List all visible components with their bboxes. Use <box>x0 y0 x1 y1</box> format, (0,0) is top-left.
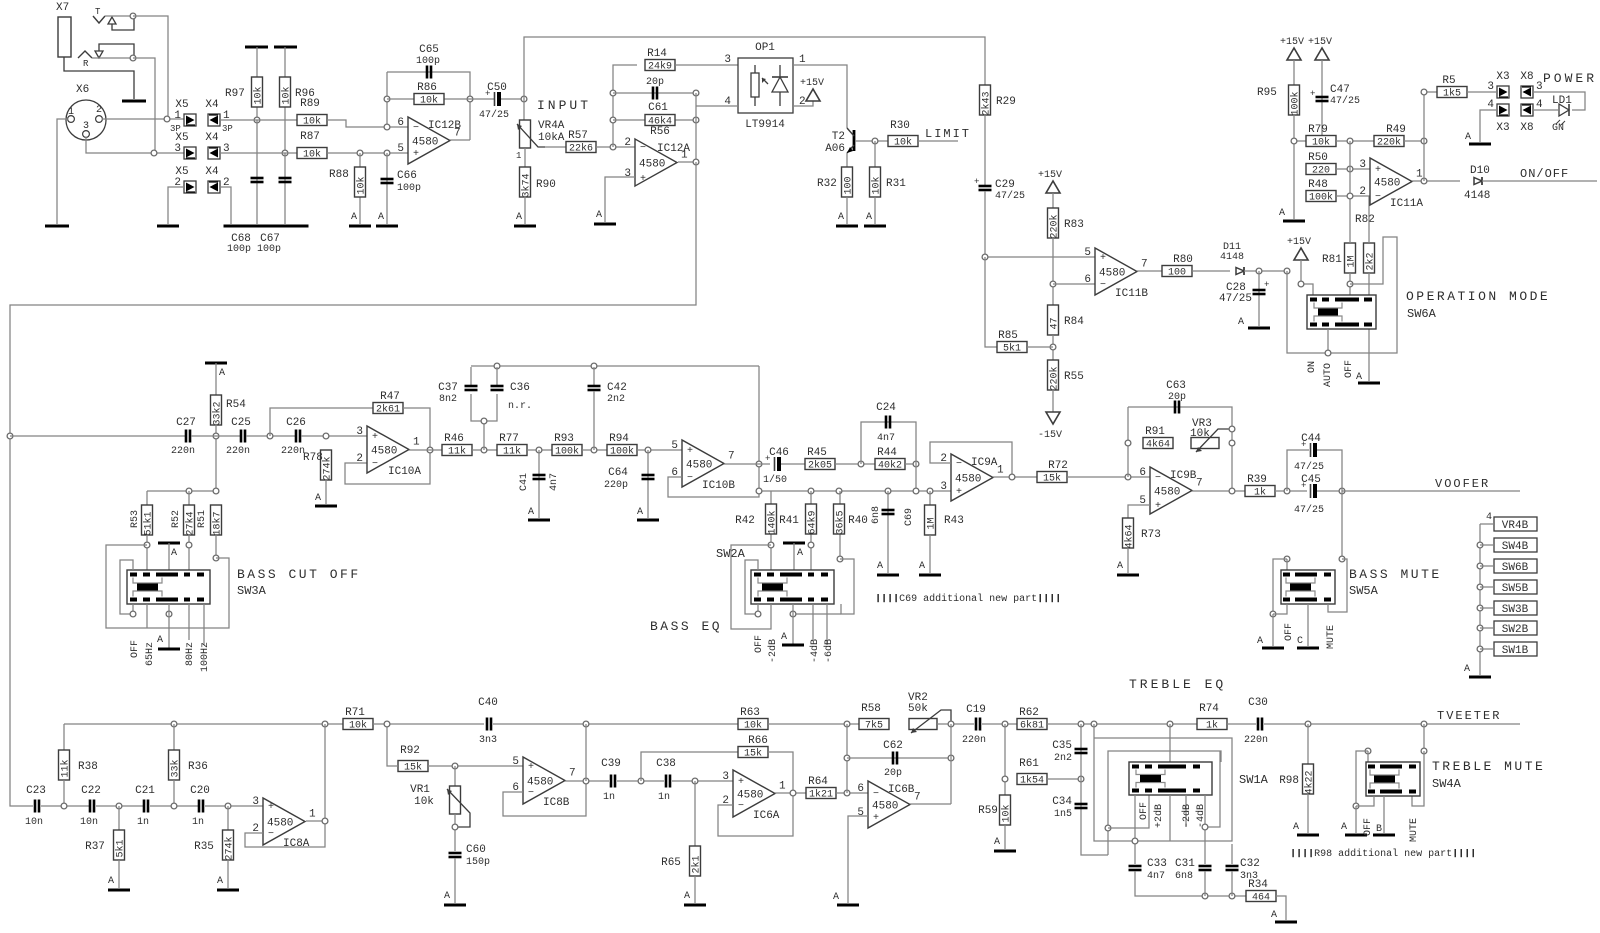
svg-text:A: A <box>378 212 384 223</box>
svg-text:A: A <box>157 635 163 646</box>
potentiometer VR3 label <box>1192 418 1212 430</box>
svg-text:R43: R43 <box>944 515 964 527</box>
ground R95 column <box>1279 208 1305 221</box>
switch SW3A 65Hz <box>145 642 156 666</box>
svg-text:X4: X4 <box>205 166 219 178</box>
capacitor C67 label <box>260 233 280 245</box>
wire top bus <box>524 37 985 99</box>
wire IC6A fb loop <box>718 793 793 836</box>
resistor R64 <box>806 776 836 801</box>
wire C22 to C21 <box>96 805 144 807</box>
switch SW1A +2dB <box>1153 804 1165 828</box>
ground R32 <box>836 212 858 226</box>
svg-text:100k: 100k <box>1309 192 1333 204</box>
capacitor C44 <box>1301 440 1317 457</box>
svg-text:VR4A: VR4A <box>538 120 565 132</box>
BASS CUT OFF label <box>237 567 361 582</box>
diode D11 part <box>1220 252 1244 263</box>
wire R31 column <box>874 141 876 167</box>
wire C33 bottom row <box>1135 871 1246 896</box>
wire C69 column <box>887 491 889 573</box>
wire SW3A mid ground stub <box>168 604 170 649</box>
svg-text:4148: 4148 <box>1464 190 1490 202</box>
svg-text:R72: R72 <box>1048 460 1068 472</box>
wire R48 to pin2 <box>1336 195 1370 197</box>
capacitor C33 <box>1129 866 1142 870</box>
wire SW5B <box>1480 586 1494 588</box>
svg-text:6n8: 6n8 <box>871 506 882 524</box>
wire SW2A mid gnd stub <box>792 604 794 645</box>
node R51 top <box>213 488 219 494</box>
svg-text:A: A <box>781 632 787 643</box>
svg-text:A: A <box>684 891 690 902</box>
svg-text:3n3: 3n3 <box>479 735 497 746</box>
node IC11A out <box>1421 178 1427 184</box>
power +15V at OP1 <box>800 78 824 101</box>
wire SW1A 2dB link <box>1108 795 1149 828</box>
svg-text:R34: R34 <box>1248 879 1268 891</box>
wire C24 loop <box>861 422 916 464</box>
wire VR4A to R90 <box>524 148 526 167</box>
svg-text:−: − <box>1155 473 1161 484</box>
node R85 right <box>1050 344 1056 350</box>
TREBLE EQ label <box>1129 677 1226 692</box>
svg-text:R14: R14 <box>647 48 667 60</box>
resistor R29 <box>980 85 1016 116</box>
wire SW3A 65Hz stub <box>146 604 148 628</box>
svg-text:C39: C39 <box>601 758 621 770</box>
op-amp IC6B name <box>888 784 915 796</box>
capacitor C36 label <box>510 382 530 394</box>
svg-text:IC9A: IC9A <box>971 457 998 469</box>
connector X8 pin4 <box>1521 104 1533 116</box>
svg-text:+: + <box>640 174 646 185</box>
svg-text:1M: 1M <box>927 517 938 529</box>
svg-text:A: A <box>1271 910 1277 921</box>
ground SW4A B <box>1373 834 1395 837</box>
svg-text:C36: C36 <box>510 382 530 394</box>
wire IC6B out <box>910 803 951 805</box>
wire X7 sleeve to ground <box>64 57 134 99</box>
X3 pin3 num <box>1487 81 1494 93</box>
svg-text:C46: C46 <box>769 447 789 459</box>
wire C44 loop <box>1287 450 1309 491</box>
wire C36 bottom to R77 node <box>483 421 485 450</box>
resistor R51 <box>211 505 224 536</box>
node IC8B out top <box>583 721 589 727</box>
node R61 left <box>1002 776 1008 782</box>
wire IC8A fb loop <box>245 821 325 847</box>
node VR3 wiper <box>1229 426 1235 432</box>
capacitor C62 label <box>883 740 903 752</box>
wire R57 to IC12A pin2 <box>596 146 635 148</box>
svg-text:-2dB: -2dB <box>1181 804 1193 828</box>
resistor R65 <box>690 846 703 876</box>
svg-text:R48: R48 <box>1308 179 1328 191</box>
svg-text:3P: 3P <box>222 124 233 134</box>
svg-text:1n: 1n <box>658 792 670 803</box>
svg-text:R97: R97 <box>225 88 245 100</box>
capacitor C50 label <box>487 82 507 94</box>
svg-text:C64: C64 <box>608 467 628 479</box>
ground R59 <box>994 837 1016 851</box>
wire X8-3 to LD1 <box>1533 92 1585 110</box>
rail top R96 <box>274 46 297 49</box>
wire treble top bus <box>64 723 343 725</box>
switch SW6A OFF <box>1344 360 1355 378</box>
resistor R86 <box>414 82 444 107</box>
wire jack T bracket <box>112 18 134 30</box>
wire SW3A off stub <box>132 604 134 614</box>
node IC12A pin2 <box>610 144 616 150</box>
capacitor C25 value <box>226 446 250 457</box>
wire jack R right <box>133 58 155 153</box>
capacitor C35 <box>1075 749 1088 753</box>
capacitor C46 label <box>769 447 789 459</box>
ground IC6B pin5 <box>833 892 859 905</box>
resistor R65 label <box>661 857 681 869</box>
ground R90 <box>514 212 536 226</box>
power +15V at C47 <box>1308 37 1332 60</box>
ground IC12A pin3 <box>594 210 616 224</box>
capacitor C21 label <box>135 785 155 797</box>
wire IC6B fb column <box>950 724 952 804</box>
wire R65 to ground <box>694 876 696 903</box>
svg-text:IC8B: IC8B <box>543 797 570 809</box>
wire woofer to SW5A <box>1341 491 1343 559</box>
node C64 top <box>645 447 651 453</box>
svg-text:4580: 4580 <box>955 474 981 486</box>
capacitor C35 value <box>1054 753 1072 764</box>
svg-text:4580: 4580 <box>686 460 712 472</box>
capacitor C64 value <box>604 480 628 491</box>
svg-text:C60: C60 <box>466 844 486 856</box>
svg-text:6k81: 6k81 <box>1020 720 1044 732</box>
switch SW5A C label <box>1297 636 1303 647</box>
resistor R48 <box>1306 179 1336 204</box>
svg-text:100k: 100k <box>1290 91 1302 115</box>
svg-text:A: A <box>1257 636 1263 647</box>
node SW2A top2 <box>808 542 814 548</box>
node SW5A left top <box>1284 556 1290 562</box>
svg-text:X8: X8 <box>1520 122 1533 134</box>
OP1 pin2 <box>799 96 806 108</box>
resistor R56 <box>645 115 675 128</box>
resistor R83 <box>1048 208 1084 239</box>
node C31 bottom <box>1202 893 1208 899</box>
wire R36 bottom <box>173 780 175 806</box>
capacitor C25 <box>241 430 245 443</box>
ground SW2A <box>781 632 804 645</box>
wire R63 to R58 <box>768 723 860 725</box>
svg-text:SW1A: SW1A <box>1239 773 1269 787</box>
svg-text:+: + <box>413 149 419 160</box>
resistor R97 <box>225 77 265 107</box>
wire IC9A out <box>993 476 1037 478</box>
capacitor C19 <box>976 718 980 731</box>
node IC12A out <box>693 159 699 165</box>
wire R52 column <box>188 491 190 505</box>
wire SW1A center bottom <box>1169 795 1171 841</box>
svg-text:C30: C30 <box>1248 697 1268 709</box>
wire IC8B out <box>565 780 609 782</box>
svg-text:A: A <box>516 212 522 223</box>
svg-text:C50: C50 <box>487 82 507 94</box>
wire SW1A off stub <box>1134 795 1136 864</box>
svg-text:10n: 10n <box>80 817 98 828</box>
capacitor C33 label <box>1147 858 1167 870</box>
ground X5-2 <box>157 225 179 228</box>
ground SW3A <box>157 635 180 649</box>
svg-text:-2dB: -2dB <box>767 639 779 663</box>
switch SW6A <box>1307 295 1376 329</box>
svg-text:11k: 11k <box>448 446 466 458</box>
node SW2A bottom mid <box>790 611 796 617</box>
resistor R91 <box>1143 426 1173 451</box>
svg-text:C38: C38 <box>656 758 676 770</box>
pin 3 label left <box>174 143 181 155</box>
node R78 top <box>323 433 329 439</box>
resistor R97 label <box>0 0 1 1</box>
svg-text:R38: R38 <box>78 761 98 773</box>
node SW2A bottom left <box>755 611 761 617</box>
svg-text:4: 4 <box>1487 99 1494 111</box>
svg-text:220k: 220k <box>1377 137 1401 149</box>
connector SW1B <box>1494 642 1537 657</box>
svg-text:IC11B: IC11B <box>1115 288 1148 300</box>
wire X5-2 to ground <box>168 187 184 224</box>
svg-text:4580: 4580 <box>412 137 438 149</box>
svg-text:3: 3 <box>1359 159 1366 171</box>
svg-text:220n: 220n <box>226 446 250 457</box>
node WOOFER <box>1339 488 1345 494</box>
svg-text:4580: 4580 <box>1154 487 1180 499</box>
capacitor C30 label <box>1248 697 1268 709</box>
wire R82 through switch <box>1368 273 1370 381</box>
connector X4 row2 label <box>205 132 219 144</box>
connector X3 pin3 <box>1497 86 1509 98</box>
svg-text:MUTE: MUTE <box>1326 625 1337 649</box>
wire SW1A top feed <box>1169 724 1171 762</box>
node IC8A out <box>322 818 328 824</box>
resistor R62 <box>1017 707 1047 732</box>
svg-text:X3: X3 <box>1496 71 1509 83</box>
wire R34 to ground <box>1276 896 1286 920</box>
svg-text:+: + <box>1100 253 1106 264</box>
svg-text:65Hz: 65Hz <box>145 642 156 666</box>
wire C40 to R63 <box>493 723 738 725</box>
resistor R43 <box>925 505 938 535</box>
wire R42 column <box>770 491 772 570</box>
svg-text:X4: X4 <box>205 99 219 111</box>
node SW4A left top <box>1365 748 1371 754</box>
svg-text:C65: C65 <box>419 44 439 56</box>
node R91 left <box>1125 440 1131 446</box>
svg-text:n.r.: n.r. <box>508 401 532 412</box>
svg-text:C37: C37 <box>438 382 458 394</box>
potentiometer VR3 value <box>1190 428 1210 440</box>
svg-text:5: 5 <box>397 143 404 155</box>
svg-text:SW1B: SW1B <box>1502 645 1529 657</box>
svg-text:R5: R5 <box>1442 75 1455 87</box>
resistor R98 label <box>1279 775 1299 787</box>
svg-text:2n2: 2n2 <box>607 394 625 405</box>
wire C30 to tweeter <box>1264 723 1520 725</box>
wire R92 bus drop <box>387 724 398 766</box>
node C44 left <box>1284 488 1290 494</box>
svg-text:OFF: OFF <box>1363 818 1374 836</box>
capacitor C34 <box>1075 804 1088 808</box>
OP1 LDR element <box>751 65 768 106</box>
capacitor C37 label <box>438 382 458 394</box>
connector X7 body <box>58 17 71 57</box>
capacitor C65 label <box>419 44 439 56</box>
potentiometer VR1 wiper <box>447 789 470 827</box>
svg-text:OPERATION MODE: OPERATION MODE <box>1406 289 1550 304</box>
svg-text:POWER: POWER <box>1543 71 1597 86</box>
wire R59 column <box>1004 724 1006 795</box>
svg-text:IC9B: IC9B <box>1170 470 1197 482</box>
node SW3A bottom left <box>130 611 136 617</box>
node bus C69 <box>885 488 891 494</box>
resistor R42 <box>766 504 779 535</box>
op-amp IC11A <box>1359 158 1423 205</box>
capacitor C27 <box>186 430 190 443</box>
connector X8 row1 label <box>1520 71 1533 83</box>
svg-text:R74: R74 <box>1199 703 1219 715</box>
node C35 C34 <box>1078 776 1084 782</box>
capacitor C28 label <box>1226 282 1246 294</box>
op-amp IC8B <box>512 756 575 804</box>
svg-text:11k: 11k <box>503 446 521 458</box>
svg-text:-4dB: -4dB <box>809 639 821 663</box>
svg-text:274k: 274k <box>224 836 236 860</box>
svg-text:−: − <box>413 123 419 134</box>
wire C66 column <box>386 153 388 224</box>
wire SW6A right loop <box>1287 237 1397 353</box>
svg-text:4n7: 4n7 <box>1147 871 1165 882</box>
svg-text:3: 3 <box>940 481 947 493</box>
wire SW2A inner left <box>745 560 758 614</box>
wire R31 to ground <box>874 197 876 224</box>
svg-text:220n: 220n <box>962 735 986 746</box>
svg-text:IC11A: IC11A <box>1390 198 1423 210</box>
wire main bus from IC12A <box>10 162 696 806</box>
connector X5 row2 label <box>175 132 188 144</box>
node IC10B out <box>756 461 762 467</box>
capacitor C26 label <box>286 417 306 429</box>
svg-text:R35: R35 <box>194 841 214 853</box>
potentiometer VR2 label <box>908 692 928 704</box>
wire R43 to ground <box>929 535 931 573</box>
wire C60 to ground <box>454 858 456 903</box>
svg-text:274k: 274k <box>322 456 334 480</box>
node C61 right <box>693 90 699 96</box>
svg-text:R94: R94 <box>609 433 629 445</box>
svg-text:51k1: 51k1 <box>143 511 155 535</box>
wire X4-3 to R87 <box>220 152 297 154</box>
ground SW5A A <box>1257 636 1284 648</box>
svg-text:BASS CUT OFF: BASS CUT OFF <box>237 567 361 582</box>
svg-text:R87: R87 <box>300 131 320 143</box>
capacitor C62 value <box>884 768 902 779</box>
resistor R87 <box>297 131 327 161</box>
wire IC11A out <box>1412 180 1460 182</box>
svg-text:C45: C45 <box>1301 474 1321 486</box>
svg-text:3: 3 <box>174 143 181 155</box>
svg-text:C69: C69 <box>904 508 915 526</box>
capacitor C28 <box>1253 280 1270 294</box>
pin 1 label right <box>223 110 230 122</box>
wire R43 column <box>929 491 931 505</box>
resistor R55 <box>1048 360 1084 391</box>
capacitor C62 <box>893 752 897 765</box>
svg-text:20p: 20p <box>884 768 902 779</box>
capacitor C23 <box>35 800 39 813</box>
capacitor C68 <box>251 178 264 182</box>
wire D11 to C28 node <box>1244 270 1287 272</box>
wire R65 column <box>694 781 696 846</box>
wire C32 bottom2 <box>1231 871 1233 896</box>
node bass tap <box>7 433 13 439</box>
svg-text:R29: R29 <box>996 96 1016 108</box>
resistor R82 <box>1364 243 1377 273</box>
node SW4A right top <box>1421 748 1427 754</box>
svg-text:VR1: VR1 <box>410 784 430 796</box>
wire SW4A A gnd <box>1355 806 1357 833</box>
wire SW2B <box>1480 627 1494 629</box>
capacitor C24 label <box>876 402 896 414</box>
switch SW2A label <box>716 547 746 561</box>
svg-text:TREBLE EQ: TREBLE EQ <box>1129 677 1226 692</box>
svg-text:7: 7 <box>728 451 735 463</box>
svg-text:4580: 4580 <box>872 801 898 813</box>
node IC11B pin6 <box>1050 281 1056 287</box>
svg-text:47: 47 <box>1050 317 1061 329</box>
wire A rail to SW3A <box>168 543 170 570</box>
resistor R40 <box>834 504 847 535</box>
resistor R89 <box>297 98 327 128</box>
svg-text:R98: R98 <box>1279 775 1299 787</box>
resistor R37 <box>114 830 127 860</box>
wire R78 to ground <box>325 480 327 504</box>
resistor R58 <box>859 703 889 732</box>
diode D10 part <box>1464 190 1490 202</box>
rail A above SW3A <box>158 543 180 559</box>
wire SW4A left loop <box>1356 751 1368 806</box>
ground C28 <box>1238 317 1270 328</box>
svg-text:+: + <box>528 762 534 773</box>
node IC8A out top <box>322 721 328 727</box>
svg-text:IC10B: IC10B <box>702 480 735 492</box>
wire R85 column <box>985 257 997 347</box>
resistor R46 <box>442 433 472 458</box>
wire X6 pin3 to X5-3 <box>86 137 184 153</box>
wire C37 branch <box>470 367 472 385</box>
svg-text:3k74: 3k74 <box>521 173 533 197</box>
resistor R52 <box>184 505 197 536</box>
wire IC12A out <box>678 93 696 162</box>
svg-text:20p: 20p <box>1168 392 1186 403</box>
op-amp IC9B <box>1139 467 1202 514</box>
ground X7 <box>122 100 146 103</box>
wire bass bus <box>10 435 186 437</box>
potentiometer VR3 <box>1191 438 1219 449</box>
wire loop right down <box>758 366 760 450</box>
optocoupler OP1 box <box>738 58 793 113</box>
capacitor C20 <box>199 800 203 813</box>
svg-text:10k: 10k <box>414 796 434 808</box>
